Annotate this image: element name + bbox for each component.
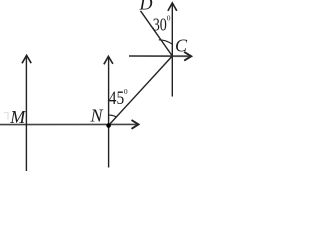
- svg-text:30: 30: [153, 14, 167, 34]
- wire: horizontal ray at C: [129, 55, 189, 57]
- wire: arrowhead of horizontal ray at right: [132, 120, 139, 129]
- svg-text:D: D: [139, 0, 153, 14]
- wire: diagonal ray C to D: [141, 11, 173, 56]
- svg-text:M: M: [9, 107, 26, 127]
- wire: diagonal ray N to C: [109, 56, 173, 125]
- wire: left vertical line through M: [25, 57, 27, 172]
- svg-text:0: 0: [124, 87, 128, 96]
- wire: arrowhead of N vertical line: [104, 56, 113, 64]
- wire: main horizontal ray through M and N: [0, 123, 137, 125]
- wire: arrowhead of C vertical line: [168, 3, 177, 11]
- angle arc at N (45 degrees): [109, 115, 117, 117]
- angle arc at C (30 degrees): [159, 40, 172, 44]
- faint artifact left of M: [4, 113, 8, 120]
- svg-text:0: 0: [167, 14, 171, 23]
- svg-text:C: C: [175, 36, 188, 56]
- wire: vertical line through C: [171, 5, 173, 97]
- wire: arrowhead of left vertical line: [22, 55, 31, 63]
- node N (filled dot): [106, 123, 111, 128]
- wire: arrowhead of C horizontal ray: [184, 52, 191, 61]
- svg-text:N: N: [90, 106, 104, 126]
- svg-text:45: 45: [109, 88, 124, 109]
- wire: vertical line through N: [108, 58, 110, 168]
